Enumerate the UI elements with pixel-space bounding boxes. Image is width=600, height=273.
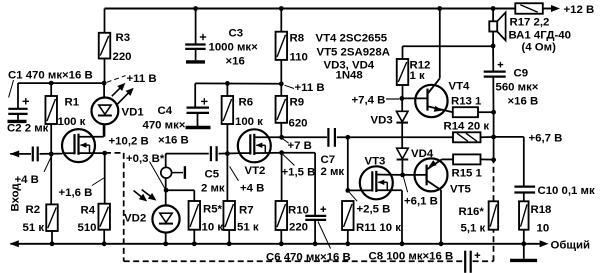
svg-text:10 к: 10 к (202, 222, 224, 234)
svg-text:×16 В: ×16 В (508, 96, 539, 108)
svg-text:С8 100 мк×16 В: С8 100 мк×16 В (369, 251, 454, 263)
svg-text:R4: R4 (81, 205, 96, 217)
svg-text:R6: R6 (239, 97, 254, 109)
svg-text:1000 мк×: 1000 мк× (209, 42, 259, 54)
svg-text:+11 В: +11 В (295, 82, 325, 94)
svg-text:51 к: 51 к (23, 222, 45, 234)
svg-text:C5: C5 (205, 169, 220, 181)
svg-text:5,1 к: 5,1 к (461, 223, 486, 235)
svg-text:R10: R10 (288, 205, 309, 217)
svg-text:220: 220 (113, 51, 132, 63)
svg-text:R5*: R5* (203, 204, 223, 216)
svg-text:С6 470 мк×16 В: С6 470 мк×16 В (266, 251, 351, 263)
svg-text:R8: R8 (290, 33, 305, 45)
svg-text:R17 2,2: R17 2,2 (510, 17, 550, 29)
svg-text:R9: R9 (290, 97, 305, 109)
svg-text:VT5: VT5 (450, 184, 472, 196)
svg-text:100 к: 100 к (235, 116, 263, 128)
svg-text:Вход: Вход (10, 183, 22, 212)
svg-text:VT3: VT3 (365, 156, 386, 168)
svg-text:VT5 2SA928A: VT5 2SA928A (317, 47, 390, 59)
svg-text:+1,5 В: +1,5 В (282, 167, 316, 179)
svg-text:R13 1: R13 1 (451, 96, 482, 108)
svg-text:470 мк×: 470 мк× (143, 120, 186, 132)
svg-text:220: 220 (289, 222, 308, 234)
svg-text:R18: R18 (531, 204, 552, 216)
svg-text:C10 0,1 мк: C10 0,1 мк (538, 185, 595, 197)
svg-text:+0,3 В*: +0,3 В* (126, 153, 165, 165)
svg-text:R16*: R16* (459, 206, 485, 218)
svg-text:620: 620 (289, 118, 308, 130)
svg-text:+1,6 В: +1,6 В (59, 187, 93, 199)
svg-text:100 к: 100 к (58, 116, 86, 128)
svg-text:C9: C9 (514, 68, 529, 80)
svg-text:VD2: VD2 (124, 213, 146, 225)
svg-text:C4: C4 (158, 105, 173, 117)
svg-text:+7 В: +7 В (288, 140, 312, 152)
svg-text:R15 1: R15 1 (452, 168, 483, 180)
svg-text:+6,1 В: +6,1 В (404, 196, 438, 208)
svg-text:+12 В: +12 В (564, 4, 595, 16)
svg-text:Общий: Общий (551, 240, 591, 252)
svg-text:+2,5 В: +2,5 В (357, 204, 391, 216)
svg-text:C1 470 мк×16 В: C1 470 мк×16 В (8, 70, 93, 82)
svg-text:R1: R1 (65, 97, 80, 109)
svg-text:C2 2 мк: C2 2 мк (7, 123, 49, 135)
svg-text:×16: ×16 (226, 56, 245, 68)
svg-text:1 к: 1 к (410, 70, 425, 82)
svg-text:+10,2 В: +10,2 В (109, 136, 149, 148)
svg-text:1N48: 1N48 (336, 70, 363, 82)
svg-text:510: 510 (78, 222, 97, 234)
svg-text:R11 10 к: R11 10 к (356, 222, 401, 234)
svg-text:51 к: 51 к (237, 222, 259, 234)
svg-text:+11 В: +11 В (127, 73, 157, 85)
svg-text:2 мк: 2 мк (201, 183, 225, 195)
svg-text:×16 В: ×16 В (158, 135, 189, 147)
svg-text:(4 Ом): (4 Ом) (522, 42, 557, 54)
svg-text:C3: C3 (229, 28, 244, 40)
svg-text:+6,7 В: +6,7 В (529, 133, 563, 145)
svg-text:R2: R2 (26, 204, 41, 216)
svg-text:VD1: VD1 (122, 107, 145, 119)
svg-text:+4 В: +4 В (240, 183, 264, 195)
svg-text:C7: C7 (321, 154, 336, 166)
svg-text:110: 110 (290, 52, 308, 64)
svg-text:R7: R7 (239, 205, 254, 217)
svg-text:10: 10 (537, 223, 550, 235)
svg-text:R3: R3 (116, 32, 131, 44)
svg-text:VT4: VT4 (449, 81, 471, 93)
svg-text:VD3: VD3 (371, 115, 393, 127)
svg-text:VD4: VD4 (411, 148, 434, 160)
svg-text:+7,4 В: +7,4 В (352, 95, 386, 107)
svg-text:VT4 2SC2655: VT4 2SC2655 (316, 33, 388, 45)
svg-text:ВА1 4ГД-40: ВА1 4ГД-40 (509, 30, 571, 42)
svg-text:R14 20 к: R14 20 к (444, 121, 490, 133)
svg-text:560 мк×: 560 мк× (496, 82, 539, 94)
svg-text:VT2: VT2 (245, 165, 266, 177)
svg-text:2 мк: 2 мк (321, 166, 345, 178)
